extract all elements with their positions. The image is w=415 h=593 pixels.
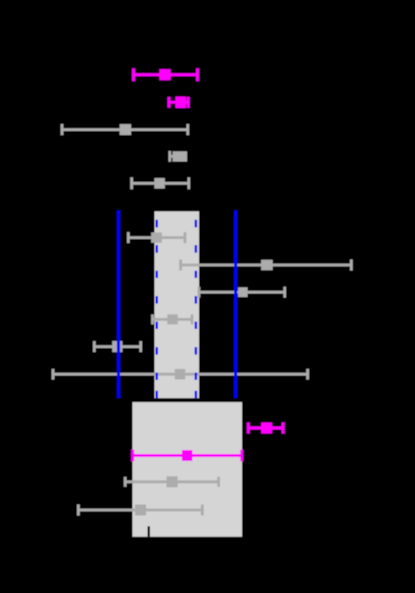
row 4 gray square block (square merged with upper CI cap) — [173, 151, 187, 161]
row 12 magenta square — [261, 423, 272, 434]
row 10 gray square — [112, 341, 122, 352]
row 7 gray error bar — [181, 260, 352, 271]
row 2 magenta error bar — [169, 97, 188, 108]
row 13 magenta error bar — [133, 450, 242, 462]
row 6 gray error bar — [128, 232, 185, 243]
right solid blue vertical line — [234, 211, 237, 399]
row 8 gray error bar — [199, 287, 285, 298]
row 14 gray error bar — [125, 477, 219, 487]
right dashed blue vertical line — [195, 220, 197, 398]
row 3 gray square — [120, 124, 131, 135]
bottom confidence band rectangle — [132, 402, 242, 537]
left solid blue vertical line — [117, 211, 120, 399]
row 2 magenta square — [175, 97, 186, 109]
row 7 gray square — [261, 260, 273, 271]
row 3 gray error bar — [62, 124, 188, 135]
row 6 gray square — [151, 232, 162, 242]
row 11 gray error bar — [53, 369, 308, 380]
row 11 gray square — [175, 369, 185, 380]
row 5 gray square — [154, 178, 165, 189]
row 5 gray error bar — [132, 177, 189, 189]
left dashed blue vertical line — [156, 220, 158, 398]
row 1 magenta square — [159, 69, 170, 80]
middle confidence band rectangle — [155, 211, 200, 398]
row 8 gray square — [238, 287, 248, 297]
row 14 gray square — [167, 476, 178, 487]
row 1 magenta error bar — [134, 68, 198, 81]
black axis tick inside bottom rectangle — [148, 526, 150, 537]
row 12 magenta error bar — [248, 422, 283, 433]
row 4 gray error bar — [170, 151, 187, 162]
row 15 gray error bar — [78, 505, 202, 516]
row 10 gray error bar — [94, 341, 140, 352]
row 15 gray square — [135, 505, 146, 516]
row 9 gray square — [167, 314, 178, 324]
row 9 gray error bar — [153, 314, 193, 324]
row 13 magenta square — [182, 450, 192, 461]
